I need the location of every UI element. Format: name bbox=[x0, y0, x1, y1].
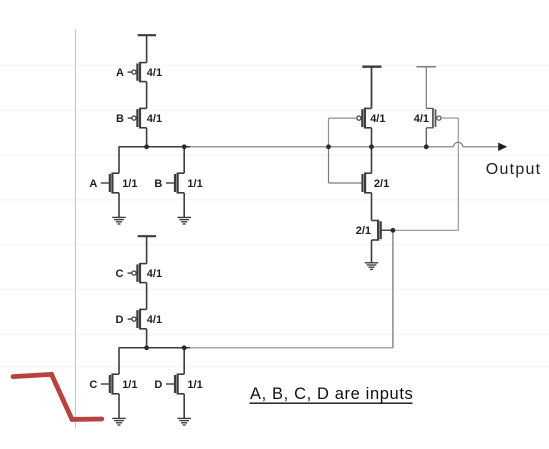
svg-text:4/1: 4/1 bbox=[147, 67, 162, 79]
svg-text:1/1: 1/1 bbox=[187, 178, 202, 190]
svg-text:Output: Output bbox=[486, 161, 542, 178]
svg-text:A: A bbox=[116, 67, 124, 79]
svg-text:4/1: 4/1 bbox=[414, 113, 429, 125]
svg-text:A: A bbox=[89, 178, 97, 190]
svg-text:C: C bbox=[116, 268, 124, 280]
svg-text:D: D bbox=[116, 314, 124, 326]
svg-text:B: B bbox=[116, 113, 124, 125]
svg-text:1/1: 1/1 bbox=[122, 178, 137, 190]
svg-text:1/1: 1/1 bbox=[187, 379, 202, 391]
svg-text:4/1: 4/1 bbox=[147, 268, 162, 280]
svg-text:A, B, C, D are inputs: A, B, C, D are inputs bbox=[250, 385, 413, 403]
svg-text:C: C bbox=[89, 379, 97, 391]
svg-text:2/1: 2/1 bbox=[374, 178, 389, 190]
svg-text:2/1: 2/1 bbox=[356, 225, 371, 237]
svg-text:4/1: 4/1 bbox=[147, 113, 162, 125]
svg-text:4/1: 4/1 bbox=[147, 314, 162, 326]
svg-text:D: D bbox=[154, 379, 162, 391]
svg-text:4/1: 4/1 bbox=[370, 113, 385, 125]
svg-text:1/1: 1/1 bbox=[122, 379, 137, 391]
svg-text:B: B bbox=[154, 178, 162, 190]
